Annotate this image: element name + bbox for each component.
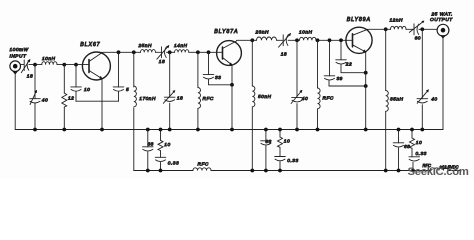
decoupling capacitor 68 (stage 3) — [393, 130, 404, 171]
wire C4 to emitter rail — [118, 92, 120, 102]
node: C7 junction — [207, 50, 211, 54]
wire C8 to L7 — [288, 39, 299, 41]
wire C5 to L4 — [166, 51, 174, 53]
wire node down to L8 — [385, 29, 387, 90]
svg-text:RFC: RFC — [203, 96, 214, 102]
svg-text:25nH: 25nH — [138, 43, 153, 49]
transistor Q2 BLY87A — [217, 41, 242, 66]
svg-text:50nH: 50nH — [258, 94, 272, 100]
inductor L9 12nH — [391, 26, 407, 29]
inductor RFC4 (supply rail) — [430, 168, 448, 171]
wire L2 to supply rail — [133, 108, 135, 171]
wire C2 to ground bus — [34, 103, 36, 129]
capacitor 33 (base-emitter Q2) — [203, 75, 214, 79]
label 100mW INPUT — [10, 47, 29, 60]
node: C10 junction — [328, 38, 332, 42]
inductor L5 50nH (feed choke) — [252, 86, 255, 107]
node: shunt trimmer junction — [168, 50, 172, 54]
svg-text:BLY87A: BLY87A — [214, 29, 238, 35]
svg-text:5: 5 — [126, 87, 129, 93]
node: shunt cap 40 output junction — [420, 27, 424, 31]
wire node to C10 — [329, 40, 331, 76]
wire RFC2 to ground bus — [317, 109, 319, 130]
wire Q1 emitter to ground bus — [101, 79, 103, 130]
node dots on ground bus — [33, 128, 424, 132]
svg-text:SeekIC.com: SeekIC.com — [408, 166, 469, 178]
output connector — [437, 24, 449, 38]
wire emitter node horizontal — [76, 100, 119, 102]
svg-text:40: 40 — [302, 96, 308, 102]
node: shunt cap 40 junction — [295, 38, 299, 42]
wire Q2 collector bus — [237, 39, 257, 41]
svg-text:BLY89A: BLY89A — [347, 17, 371, 23]
svg-text:0.33: 0.33 — [287, 158, 298, 164]
svg-text:0.33: 0.33 — [416, 151, 427, 157]
inductor L6 23nH — [257, 37, 277, 40]
trimmer capacitor 18 (series input) — [21, 59, 30, 73]
node: C11 junction — [339, 38, 343, 42]
resistor 10 (stage 1 decoupling) — [158, 130, 163, 158]
wire L3 to C5 — [156, 51, 162, 53]
wire Q1 collector bus — [102, 51, 141, 53]
svg-text:14nH: 14nH — [174, 43, 188, 49]
svg-text:33: 33 — [215, 75, 221, 81]
wire L7 to Q3 base — [316, 39, 353, 41]
wire Q3 collector bus — [366, 28, 391, 30]
svg-text:40: 40 — [431, 97, 437, 103]
wire node to C11 — [340, 40, 342, 60]
resistor 12 — [62, 93, 67, 107]
node: RFC2 junction — [316, 38, 320, 42]
svg-text:0.33: 0.33 — [168, 160, 179, 166]
wire Q2 emitter to ground bus — [231, 65, 233, 130]
node: L8 junction — [384, 27, 388, 31]
inductor L4 14nH — [175, 50, 189, 53]
trimmer capacitor 40 (output shunt) — [417, 89, 429, 103]
wire C10 to Q3 emitter — [329, 80, 366, 86]
wire L6 to C8 — [277, 39, 283, 41]
svg-text:23nH: 23nH — [255, 30, 270, 36]
svg-text:10: 10 — [84, 87, 90, 93]
svg-text:10nH: 10nH — [42, 56, 56, 62]
node: RFC1 junction — [196, 50, 200, 54]
node: C11-emitter junction — [364, 71, 368, 75]
wire node to R1 — [63, 65, 65, 93]
inductor RFC3 (supply rail) — [193, 168, 211, 171]
wire C1 to L1 — [29, 64, 42, 66]
svg-text:12nH: 12nH — [390, 18, 404, 24]
svg-text:18: 18 — [177, 96, 183, 102]
decoupling capacitor 68 (stage 1) — [143, 130, 154, 171]
node: L5 junction — [250, 38, 254, 42]
wire node down to C9 — [296, 40, 298, 97]
svg-text:INPUT: INPUT — [10, 54, 27, 60]
wire node to C7 — [208, 52, 210, 74]
node dots on supply rail — [146, 169, 415, 173]
svg-text:18: 18 — [159, 59, 165, 65]
transistor Q3 BLY89A — [346, 27, 372, 53]
svg-text:60: 60 — [415, 36, 421, 42]
wire L9 to C12 plate — [406, 28, 414, 30]
svg-text:68: 68 — [265, 139, 271, 145]
svg-text:RFC: RFC — [198, 162, 209, 168]
capacitor 0.33 (stage 3 decoupling) — [409, 157, 420, 171]
svg-text:25 WAT.: 25 WAT. — [431, 12, 453, 18]
wire bus down to L2 — [133, 52, 135, 87]
node: L2 junction — [132, 50, 136, 54]
decoupling capacitor 68 (stage 2) — [261, 130, 272, 171]
capacitor 22 (base-emitter Q3) — [336, 60, 347, 64]
svg-text:40: 40 — [42, 97, 48, 103]
resistor 10 (stage 2 decoupling) — [278, 130, 283, 157]
node: C10-emitter junction — [364, 84, 368, 88]
wire node down to C6 — [169, 52, 171, 97]
wire node down to L5 — [251, 40, 253, 86]
inductor L1 10nH — [42, 62, 57, 65]
trimmer capacitor 18 (series interstage 1) — [157, 45, 170, 59]
svg-text:68: 68 — [148, 142, 154, 148]
trimmer capacitor 18 (series interstage 2) — [279, 33, 292, 47]
capacitor 0.33 (stage 1 decoupling) — [155, 157, 166, 170]
wire node down to C13 — [421, 29, 423, 98]
svg-text:10: 10 — [284, 139, 290, 145]
capacitor 10 (base-emitter) — [71, 87, 82, 91]
label 25 WAT. OUTPUT — [430, 12, 453, 23]
svg-text:OUTPUT: OUTPUT — [430, 17, 453, 23]
wire Q3 emitter to ground bus — [365, 52, 367, 130]
wire C3 to emitter rail — [75, 92, 77, 102]
resistor 10 (stage 3 decoupling) — [410, 130, 415, 157]
transistor Q1 BLX67 — [82, 52, 110, 80]
wire RFC1 to ground bus — [197, 108, 199, 129]
wire input connector to ground bus — [14, 72, 16, 130]
wire node to RFC2 — [317, 40, 319, 88]
wire L4 to Q2 base — [189, 51, 223, 53]
wire C13 to ground bus — [421, 105, 423, 130]
wire C9 to ground bus — [296, 104, 298, 130]
inductor RFC1 — [198, 88, 201, 109]
svg-text:10: 10 — [164, 142, 170, 148]
wire input to C1 — [20, 64, 23, 66]
supply rail — [134, 170, 193, 172]
svg-text:100mW: 100mW — [10, 47, 29, 53]
wire node to RFC1 — [197, 52, 199, 87]
wire output connector to ground bus — [442, 36, 444, 130]
wire node to C4 — [118, 52, 120, 87]
inductor L8 35nH (feed choke) — [386, 91, 389, 112]
svg-text:18: 18 — [281, 52, 287, 58]
wire node down to C2 — [34, 65, 36, 99]
trimmer capacitor 18 (shunt) — [163, 90, 175, 103]
wire C11 to Q3 emitter — [341, 64, 366, 72]
trimmer capacitor 40 (interstage shunt) — [291, 90, 302, 104]
svg-text:35nH: 35nH — [390, 96, 404, 102]
wire L8 to supply rail — [385, 111, 387, 170]
wire C12 to output connector — [419, 28, 438, 30]
wire R1 to ground bus — [63, 107, 65, 130]
svg-text:10nH: 10nH — [299, 30, 313, 36]
node: R1 junction — [62, 63, 66, 67]
inductor RFC2 — [318, 88, 321, 109]
inductor L3 25nH — [141, 50, 156, 53]
inductor L2 170nH (feed choke) — [134, 86, 137, 107]
capacitor 0.33 (stage 2 decoupling) — [275, 157, 286, 171]
wire C7 to Q2 emitter — [209, 79, 233, 85]
svg-text:22: 22 — [345, 61, 352, 67]
capacitor 5 (collector) — [113, 87, 124, 91]
svg-text:10: 10 — [416, 140, 422, 146]
svg-text:RFC: RFC — [323, 96, 334, 102]
wire L1 to Q1 base — [57, 64, 89, 66]
inductor L7 10nH — [300, 37, 317, 40]
wire L5 to supply rail — [251, 107, 253, 171]
node: C7-emitter junction — [230, 83, 234, 87]
input connector — [10, 61, 21, 75]
node: shunt cap junction — [33, 63, 37, 67]
node: C3 junction — [74, 63, 78, 67]
wire node to C3 — [75, 65, 77, 87]
svg-text:18: 18 — [27, 74, 33, 80]
trimmer capacitor 40 (input shunt) — [30, 90, 41, 105]
svg-text:BLX67: BLX67 — [80, 42, 100, 48]
trimmer capacitor 60 (series output) — [409, 21, 424, 35]
wire C6 to ground bus — [169, 103, 171, 129]
svg-text:170nH: 170nH — [139, 96, 156, 102]
node: C4 junction — [117, 50, 121, 54]
ground bus — [15, 129, 443, 131]
svg-text:12: 12 — [68, 96, 74, 102]
capacitor 39 (base network Q3) — [324, 76, 335, 80]
svg-text:39: 39 — [337, 76, 343, 82]
